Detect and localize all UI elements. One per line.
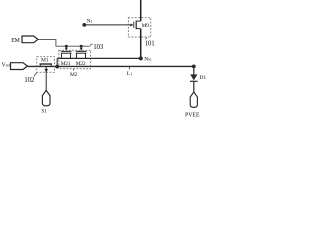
riser wire from main wire up <box>56 58 58 66</box>
junction dot at diode branch corner <box>192 65 196 69</box>
transistor M22 <box>76 51 87 58</box>
wire supply down to M9 drain <box>140 0 142 21</box>
upper wire M21/M22 row to node Nin <box>57 57 141 59</box>
svg-text:S1: S1 <box>41 108 47 114</box>
leader L1 <box>128 67 130 69</box>
svg-text:N1: N1 <box>87 19 93 25</box>
EM input tag <box>22 36 38 43</box>
svg-text:Nin: Nin <box>144 56 151 62</box>
junction dot M21 gate tap <box>65 45 68 48</box>
junction dot M22 gate tap <box>80 45 83 48</box>
Vref input tag <box>11 63 28 70</box>
wire corner down to D1 <box>193 66 195 74</box>
node Nin dot <box>139 56 143 60</box>
svg-text:101: 101 <box>145 39 156 47</box>
wire M9 source down to node Nin <box>140 29 142 59</box>
svg-text:PVEE: PVEE <box>185 112 200 118</box>
wire N1 to M9 gate <box>84 24 131 26</box>
main wire Vref to diode branch <box>27 65 194 67</box>
wire EM tag to gate rail <box>38 39 89 46</box>
svg-text:102: 102 <box>24 76 35 84</box>
dashed box M2 around M21 M22 <box>59 50 91 69</box>
svg-text:D1: D1 <box>199 75 206 81</box>
leader 103 <box>90 44 93 47</box>
gate arrow M1 <box>45 69 49 73</box>
wire D1 to PVEE <box>193 81 195 92</box>
svg-text:103: 103 <box>93 43 104 51</box>
leader 101 <box>146 37 147 39</box>
transistor M9 <box>134 21 141 30</box>
gate arrow M22 <box>80 46 82 48</box>
leader 102 <box>34 72 37 76</box>
svg-text:M1: M1 <box>41 57 49 63</box>
wire M1 gate down to S1 <box>45 66 47 90</box>
supply terminal PVEE <box>190 92 197 107</box>
junction dot on main wire at riser <box>55 65 59 69</box>
svg-text:L1: L1 <box>127 71 132 77</box>
dashed box 102 around M1 <box>37 57 55 72</box>
leader M2 <box>73 69 75 71</box>
svg-text:M9: M9 <box>142 23 150 29</box>
transistor M1 <box>40 64 53 66</box>
current source terminal S1 <box>42 90 50 106</box>
transistor M21 <box>61 51 72 58</box>
dashed box 101 around M9 <box>128 18 151 37</box>
gate arrow M9 <box>130 24 133 27</box>
svg-text:EM: EM <box>11 38 20 44</box>
node N1 dot <box>82 23 86 27</box>
diode D1 <box>190 74 197 80</box>
svg-text:M2: M2 <box>70 72 78 78</box>
svg-text:Vref: Vref <box>2 62 11 68</box>
gate arrow M21 <box>65 46 67 48</box>
